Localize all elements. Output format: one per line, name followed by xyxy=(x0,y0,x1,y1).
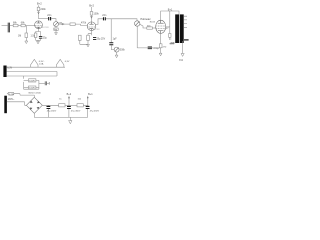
svg-text:22n: 22n xyxy=(47,14,52,17)
svg-text:ECC83: ECC83 xyxy=(42,27,49,29)
svg-text:8 Ω: 8 Ω xyxy=(179,59,183,62)
svg-text:Potmeter: Potmeter xyxy=(141,18,151,21)
svg-text:25µ 25V: 25µ 25V xyxy=(97,38,106,40)
svg-text:100k: 100k xyxy=(94,13,100,16)
svg-text:1M: 1M xyxy=(18,36,21,38)
svg-text:1M: 1M xyxy=(59,22,62,24)
svg-text:6,3V: 6,3V xyxy=(65,61,70,63)
svg-text:47µ 450V: 47µ 450V xyxy=(71,111,81,113)
svg-text:270: 270 xyxy=(163,46,167,48)
svg-text:+245: +245 xyxy=(170,43,176,45)
svg-text:1,5A: 1,5A xyxy=(39,62,44,65)
svg-text:B+1: B+1 xyxy=(88,93,93,96)
svg-text:500k: 500k xyxy=(120,49,126,51)
svg-text:B250 C1500: B250 C1500 xyxy=(29,93,42,95)
svg-text:g2: g2 xyxy=(166,27,169,29)
svg-text:1k: 1k xyxy=(59,99,62,101)
svg-text:100R: 100R xyxy=(29,80,35,82)
svg-text:10k: 10k xyxy=(78,99,82,101)
svg-text:1µF: 1µF xyxy=(113,38,118,40)
svg-text:ECC83: ECC83 xyxy=(93,29,100,31)
svg-text:470k: 470k xyxy=(81,23,87,25)
svg-text:25µ: 25µ xyxy=(43,37,48,39)
svg-text:B+1: B+1 xyxy=(168,8,173,11)
svg-text:B+2: B+2 xyxy=(37,2,42,6)
svg-text:Si 1A: Si 1A xyxy=(9,93,15,96)
svg-text:B+2: B+2 xyxy=(67,93,72,96)
svg-text:230V~: 230V~ xyxy=(8,99,15,101)
svg-text:EL84: EL84 xyxy=(150,22,156,24)
svg-text:47µ 450V: 47µ 450V xyxy=(47,111,57,113)
svg-text:+100µ: +100µ xyxy=(153,48,160,50)
svg-text:B+2: B+2 xyxy=(89,4,94,8)
svg-text:220k: 220k xyxy=(40,8,46,11)
svg-text:100R: 100R xyxy=(29,88,35,90)
svg-text:6,3V: 6,3V xyxy=(7,68,12,70)
svg-text:47µ 450V: 47µ 450V xyxy=(90,111,100,113)
svg-text:22n: 22n xyxy=(102,14,107,17)
